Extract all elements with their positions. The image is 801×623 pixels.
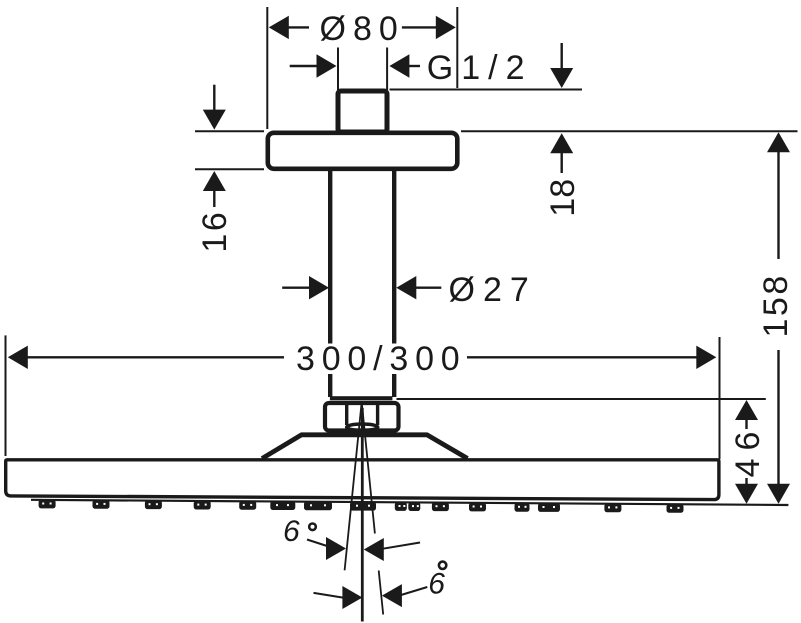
dimension 158 top arrow bbox=[767, 132, 790, 152]
dimension O27 left tail bbox=[282, 287, 310, 289]
svg-text:6: 6 bbox=[428, 568, 446, 601]
arrow G12 right bbox=[389, 54, 409, 77]
dimension 158 lower line bbox=[777, 350, 779, 487]
connection nut bbox=[325, 403, 399, 431]
arrow O27 right bbox=[396, 276, 416, 299]
extension line 300 right bbox=[719, 337, 721, 459]
svg-text:46: 46 bbox=[729, 424, 767, 478]
arrow G12 left bbox=[317, 54, 337, 77]
dimension 46 top arrow bbox=[735, 400, 758, 420]
angle lower left tail bbox=[314, 593, 344, 598]
dimension 46 upper tail bbox=[745, 419, 747, 429]
angle lower left arrow bbox=[342, 586, 362, 609]
dimension line O80 left tail bbox=[288, 26, 309, 28]
arrow O27 left bbox=[309, 276, 329, 299]
arrow O80 right bbox=[436, 16, 456, 39]
shower head plate bbox=[6, 460, 719, 500]
svg-text:6: 6 bbox=[283, 515, 301, 548]
dimension 158 bottom arrow bbox=[767, 484, 790, 504]
arrow O80 left bbox=[269, 16, 289, 39]
degree mark lower bbox=[439, 562, 446, 569]
svg-text:16: 16 bbox=[196, 210, 234, 253]
shower pipe left wall bbox=[328, 170, 332, 397]
shower pipe right wall bbox=[392, 170, 396, 397]
svg-text:Ø80: Ø80 bbox=[320, 10, 405, 48]
ball joint bottom bbox=[347, 424, 378, 430]
extension line G12 right bbox=[386, 48, 388, 91]
dimension line O80 right tail bbox=[402, 26, 437, 28]
reference line flange top right bbox=[461, 130, 798, 132]
angle upper right tail bbox=[383, 543, 420, 549]
dimension 16 upper arrow tail bbox=[213, 85, 215, 110]
ball joint cup right bbox=[376, 404, 379, 425]
svg-text:300/300: 300/300 bbox=[296, 340, 467, 378]
arrow 16 up bbox=[203, 171, 226, 191]
angle upper leader bbox=[307, 540, 327, 547]
svg-text:18: 18 bbox=[544, 179, 582, 217]
ceiling flange bbox=[268, 133, 458, 169]
spray cone right line lower bbox=[379, 571, 384, 615]
pipe end cap bbox=[330, 396, 393, 400]
extension line flange left up bbox=[266, 7, 268, 129]
spray face line bbox=[31, 500, 788, 505]
arrow 16 down bbox=[203, 110, 226, 130]
arrow 300 left bbox=[8, 346, 28, 369]
arrow 300 right bbox=[696, 346, 716, 369]
ball joint cup left bbox=[345, 404, 348, 425]
svg-text:158: 158 bbox=[757, 273, 795, 337]
nozzle row bbox=[39, 500, 684, 513]
angle lower right tail bbox=[401, 587, 427, 595]
ceiling connector square bbox=[338, 91, 387, 132]
angle upper right arrow bbox=[364, 538, 384, 561]
dimension line G12 left tail bbox=[290, 65, 318, 67]
svg-text:Ø27: Ø27 bbox=[449, 271, 537, 309]
escutcheon trapezoid bbox=[262, 435, 468, 459]
dimension O27 right tail bbox=[416, 287, 442, 289]
dimension 46 lower tail bbox=[745, 478, 747, 485]
dimension 18 lower tail bbox=[561, 153, 563, 174]
nozzle dots bbox=[42, 503, 679, 509]
text mask 300 bbox=[288, 344, 464, 375]
dimension 16 lower arrow tail bbox=[213, 190, 215, 207]
angle lower right arrow bbox=[382, 584, 402, 607]
degree mark upper bbox=[309, 524, 316, 531]
svg-text:G1/2: G1/2 bbox=[427, 49, 533, 87]
reference line 18 top bbox=[390, 89, 583, 91]
dimension 18 upper arrow tail bbox=[561, 43, 563, 68]
dimension line G12 right tail bbox=[409, 65, 420, 67]
dimension line 300 right bbox=[467, 356, 698, 358]
extension line G12 left bbox=[337, 48, 339, 91]
reference line 46 top bbox=[397, 398, 766, 400]
dimension 46 bottom arrow bbox=[735, 484, 758, 504]
arrow 18 down bbox=[550, 68, 573, 88]
spray cone right line upper bbox=[362, 404, 375, 534]
extension line 300 left bbox=[5, 335, 7, 456]
reference line flange top left bbox=[195, 130, 264, 132]
dimension line 300 left bbox=[27, 356, 284, 358]
angle upper left arrow bbox=[326, 537, 346, 560]
reference line flange bottom left bbox=[195, 168, 264, 170]
extension line flange right up bbox=[456, 7, 458, 88]
spray axis center line bbox=[361, 408, 364, 622]
dimension 158 upper tail bbox=[777, 152, 779, 260]
dimension 18 lower arrow bbox=[550, 133, 573, 153]
spray cone left line bbox=[345, 404, 362, 570]
